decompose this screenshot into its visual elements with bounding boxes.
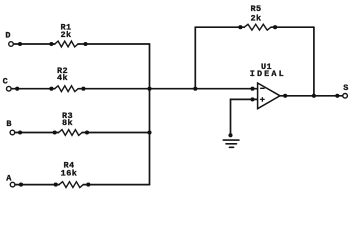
terminal S [343,83,349,98]
node dot input A [19,183,23,187]
svg-text:2k: 2k [60,30,71,40]
op-amp U1 IDEAL [250,62,287,109]
node junction bus-C [147,87,151,91]
wire A row right segment to bus corner [83,184,149,186]
node dot input C [15,87,19,91]
ground [223,133,239,147]
wire A row left segment [15,184,59,186]
wire feedback left vertical [194,27,196,88]
wire op-amp output row [280,95,343,97]
node junction feedback-summing [193,87,197,91]
wire C row left segment [11,88,55,90]
node dot input D [18,42,22,46]
svg-text:C: C [3,76,9,86]
node dot input B [18,130,22,134]
wire B row right segment to bus [82,132,149,134]
resistor R5 2k [238,4,277,30]
svg-text:2k: 2k [250,13,261,23]
wire D row right segment to bus corner [78,43,150,45]
resistor R4 16k [54,160,91,187]
svg-text:IDEAL: IDEAL [250,69,286,79]
wire feedback right vertical [313,27,315,96]
wire vertical bus [149,44,151,185]
wire D row left segment [13,43,55,45]
wire feedback top left segment [195,26,244,28]
terminal B [6,119,14,135]
wire feedback top right segment [271,26,314,28]
terminal A [6,173,15,187]
node junction bus-B [147,130,151,134]
svg-text:16k: 16k [61,169,78,179]
resistor R2 4k [49,66,85,92]
wire C row summing segment to op-amp [78,88,257,90]
resistor R3 8k [53,111,89,135]
node dot output S [335,94,339,98]
svg-text:4k: 4k [57,73,68,83]
svg-text:A: A [6,173,12,183]
resistor R1 2k [49,23,87,47]
terminal D [5,30,13,46]
svg-text:B: B [6,119,12,129]
node junction feedback-output [312,94,316,98]
svg-text:S: S [343,83,349,93]
wire B row left segment [15,132,59,134]
terminal C [3,76,11,91]
wire non-inverting input to ground [231,99,258,135]
svg-text:D: D [5,30,11,40]
svg-text:8k: 8k [62,118,73,128]
